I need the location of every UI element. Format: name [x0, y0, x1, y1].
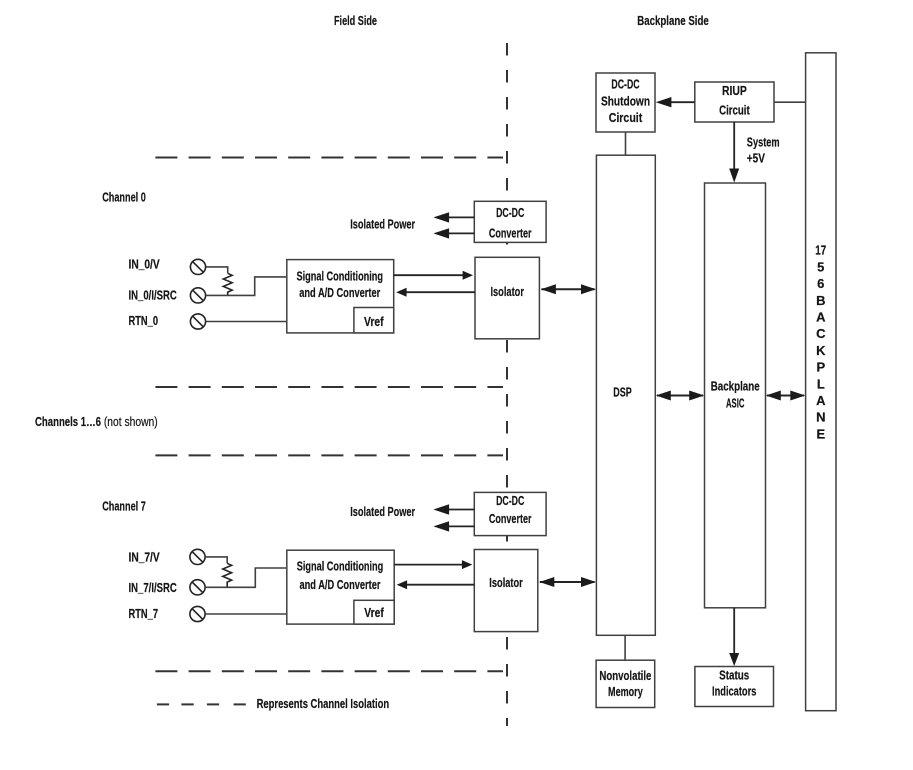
- svg-text:Backplane: Backplane: [711, 378, 760, 393]
- svg-text:IN_0/V: IN_0/V: [129, 256, 160, 271]
- box: Status Indicators: [695, 667, 774, 707]
- arrow: backplane ASIC to status indicators: [729, 608, 739, 666]
- terminal IN_0/I/SRC (screw terminal): [190, 288, 205, 303]
- svg-text:Circuit: Circuit: [609, 110, 643, 125]
- terminal RTN_7 (screw terminal): [190, 606, 205, 621]
- wire RTN_0 terminal to signal conditioner: [206, 321, 287, 323]
- wire IN_7/I/SRC terminal to signal conditioner (with jog): [205, 568, 286, 587]
- box: Isolator (ch0): [475, 257, 539, 339]
- svg-text:Vref: Vref: [364, 605, 384, 620]
- arrow: DSP to backplane ASIC (double-headed): [656, 391, 704, 401]
- arrow: backplane ASIC to 1756 backplane (double-headed): [766, 391, 806, 401]
- wire RTN_7 terminal to signal conditioner: [205, 613, 286, 615]
- wire: DC-DC shutdown circuit to DSP: [625, 132, 627, 155]
- arrow: isolator ch7 to DSP (double-headed): [539, 577, 596, 587]
- svg-text:ASIC: ASIC: [726, 396, 745, 411]
- svg-text:Signal Conditioning: Signal Conditioning: [297, 559, 384, 574]
- svg-text:Converter: Converter: [489, 511, 532, 526]
- svg-text:System: System: [747, 134, 780, 149]
- box: Signal Conditioning and A/D Converter (ch7): [287, 550, 394, 624]
- wire: RIUP circuit to 1756 backplane: [774, 101, 806, 103]
- svg-text:Channels 1…6 (not shown): Channels 1…6 (not shown): [35, 414, 158, 429]
- svg-text:Status: Status: [719, 667, 749, 682]
- svg-text:Backplane Side: Backplane Side: [637, 13, 709, 28]
- svg-text:Vref: Vref: [364, 314, 384, 329]
- svg-text:K: K: [816, 343, 826, 358]
- svg-text:Channel 0: Channel 0: [102, 190, 146, 205]
- terminal RTN_0 (screw terminal): [190, 314, 205, 329]
- arrow: isolator to signal conditioner (ch0): [396, 288, 475, 297]
- box: 1756 backplane (vertical letters): [806, 53, 836, 711]
- svg-text:Isolator: Isolator: [489, 575, 523, 590]
- dashed horizontal isolation line above channel 7: [155, 454, 503, 456]
- arrow: signal conditioner to isolator (ch7): [394, 560, 472, 569]
- box: DC-DC Shutdown Circuit: [596, 73, 655, 132]
- arrow: RIUP circuit to DC-DC shutdown circuit: [656, 97, 695, 107]
- wire IN_0/I/SRC terminal to signal conditioner (with jog): [206, 277, 287, 296]
- svg-text:Signal Conditioning: Signal Conditioning: [297, 269, 384, 284]
- svg-text:Shutdown: Shutdown: [601, 93, 650, 108]
- resistor R7 (between IN_7/V and IN_7/I/SRC): [223, 563, 232, 587]
- svg-text:A: A: [816, 310, 826, 325]
- terminal IN_7/I/SRC (screw terminal): [190, 580, 205, 595]
- svg-text:IN_7/V: IN_7/V: [129, 550, 160, 565]
- arrow: isolated power lower (DC-DC ch7 to field side): [433, 521, 474, 531]
- svg-text:RIUP: RIUP: [722, 83, 747, 98]
- box: Signal Conditioning and A/D Converter (ch0): [287, 260, 394, 333]
- svg-text:Converter: Converter: [489, 226, 532, 241]
- terminal IN_0/V (screw terminal): [190, 259, 205, 274]
- svg-text:P: P: [816, 360, 825, 375]
- svg-text:and A/D Converter: and A/D Converter: [300, 577, 381, 592]
- svg-text:5: 5: [817, 259, 824, 274]
- svg-text:DC-DC: DC-DC: [611, 77, 640, 92]
- arrow: isolator ch0 to DSP (double-headed): [541, 284, 596, 294]
- box: Isolator (ch7): [474, 550, 538, 632]
- wire IN_0/V terminal to resistor: [206, 267, 228, 273]
- box: DC-DC Converter (ch7): [474, 492, 546, 535]
- svg-text:DSP: DSP: [613, 385, 632, 400]
- svg-text:Isolated Power: Isolated Power: [350, 504, 415, 519]
- wire IN_7/V terminal to resistor: [205, 557, 227, 563]
- box: Vref (ch0): [354, 308, 394, 333]
- svg-text:Indicators: Indicators: [712, 684, 756, 699]
- legend: dashed line sample (represents channel isolation): [157, 703, 246, 705]
- svg-text:17: 17: [815, 243, 826, 258]
- svg-text:Field Side: Field Side: [334, 13, 377, 28]
- svg-text:DC-DC: DC-DC: [496, 493, 525, 508]
- box: Backplane ASIC: [705, 183, 766, 608]
- arrow: signal conditioner to isolator (ch0): [394, 271, 473, 280]
- svg-text:Memory: Memory: [608, 684, 643, 699]
- dashed vertical channel-isolation line (field/backplane divider): [506, 43, 508, 726]
- svg-text:Isolated Power: Isolated Power: [350, 217, 415, 232]
- svg-text:E: E: [816, 426, 825, 441]
- svg-text:and A/D Converter: and A/D Converter: [299, 285, 380, 300]
- svg-text:C: C: [816, 326, 826, 341]
- svg-text:IN_7/I/SRC: IN_7/I/SRC: [129, 580, 178, 595]
- svg-text:RTN_7: RTN_7: [129, 606, 159, 621]
- arrow: RIUP circuit to backplane ASIC (System +5V): [729, 122, 739, 183]
- dashed horizontal isolation line below channel 7: [155, 670, 503, 672]
- resistor R0 (between IN_0/V and IN_0/I/SRC): [223, 273, 232, 295]
- box: DSP: [596, 155, 655, 635]
- svg-text:B: B: [816, 293, 825, 308]
- arrow: isolator to signal conditioner (ch7): [397, 580, 475, 589]
- svg-text:Nonvolatile: Nonvolatile: [599, 668, 651, 683]
- box: Vref (ch7): [354, 600, 394, 624]
- svg-text:Circuit: Circuit: [719, 102, 750, 117]
- dashed horizontal isolation line below channel 0: [155, 386, 503, 388]
- svg-text:IN_0/I/SRC: IN_0/I/SRC: [129, 288, 178, 303]
- box: DC-DC Converter (ch0): [474, 201, 546, 242]
- box: Nonvolatile Memory: [596, 660, 655, 707]
- arrow: isolated power upper (DC-DC ch7 to field side): [433, 504, 474, 514]
- svg-text:Isolator: Isolator: [490, 284, 524, 299]
- terminal IN_7/V (screw terminal): [190, 549, 205, 564]
- svg-text:N: N: [816, 410, 825, 425]
- dashed horizontal isolation line above channel 0: [155, 157, 503, 159]
- svg-text:L: L: [817, 376, 825, 391]
- svg-text:Represents Channel Isolation: Represents Channel Isolation: [257, 696, 390, 711]
- svg-text:DC-DC: DC-DC: [496, 205, 525, 220]
- svg-text:6: 6: [817, 276, 824, 291]
- svg-text:Channel 7: Channel 7: [102, 498, 146, 513]
- svg-text:A: A: [816, 393, 826, 408]
- box: RIUP Circuit: [695, 82, 774, 122]
- arrow: isolated power lower (DC-DC ch0 to field side): [433, 228, 474, 238]
- svg-text:RTN_0: RTN_0: [129, 313, 159, 328]
- wire: DSP to nonvolatile memory: [624, 635, 626, 660]
- arrow: isolated power upper (DC-DC ch0 to field side): [433, 212, 474, 222]
- svg-text:+5V: +5V: [747, 151, 765, 166]
